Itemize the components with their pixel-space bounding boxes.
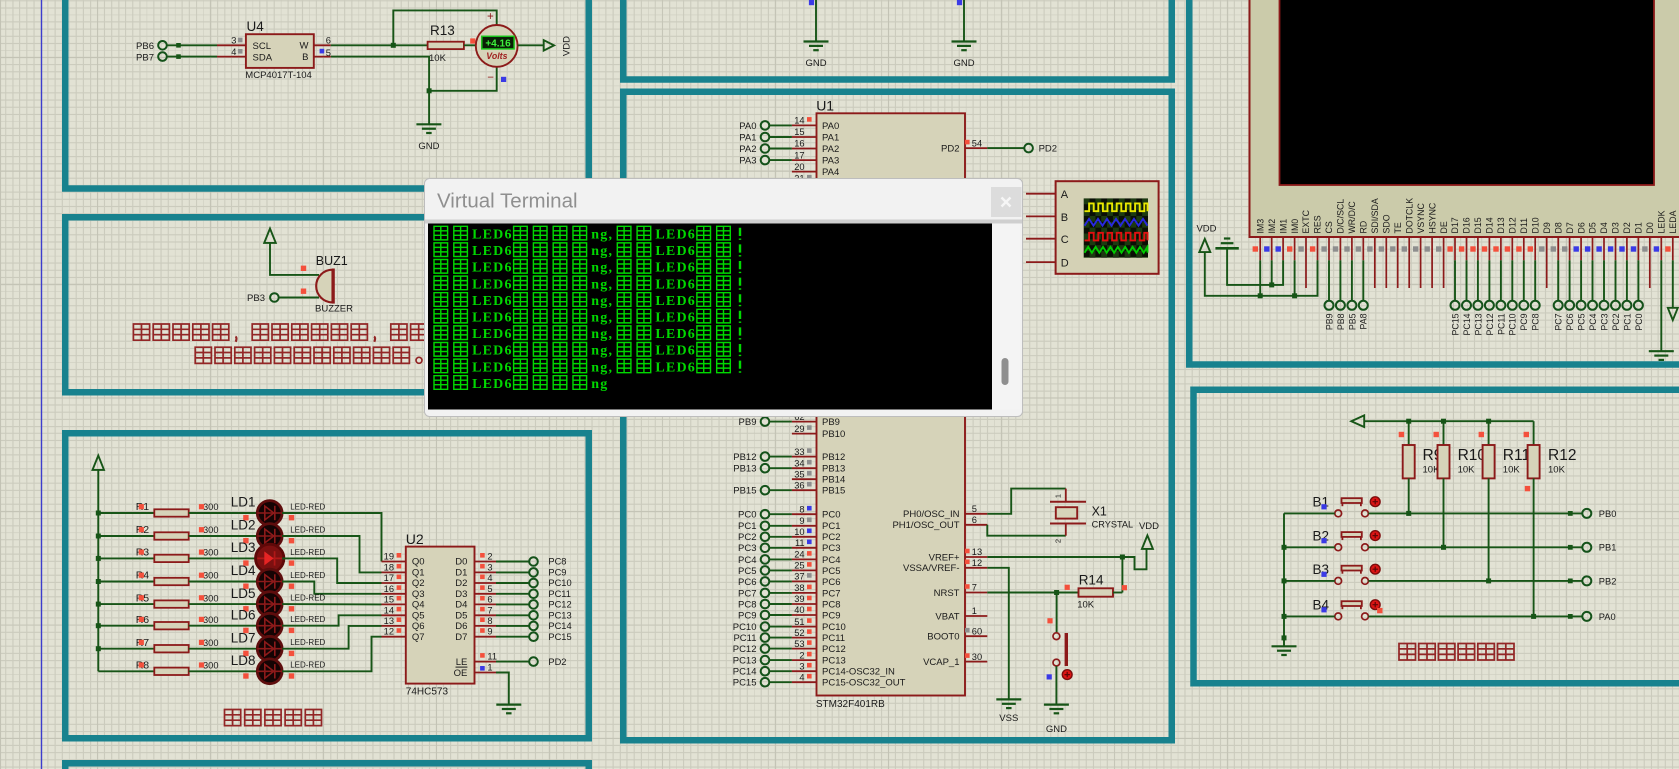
svg-text:TE: TE	[1393, 222, 1403, 233]
frame: key circuit box	[1194, 390, 1679, 684]
svg-text:ng,: ng,	[591, 277, 613, 292]
svg-text:LD7: LD7	[231, 630, 256, 645]
svg-text:PB12: PB12	[822, 452, 845, 463]
svg-text:PC12: PC12	[548, 600, 571, 610]
svg-text:LD8: LD8	[231, 653, 256, 668]
wire bus to B1	[1284, 512, 1335, 514]
svg-text:LED6: LED6	[472, 327, 513, 342]
buzzer BUZ1	[316, 270, 332, 303]
svg-text:PC12: PC12	[822, 644, 846, 655]
wire PB15	[769, 489, 792, 491]
U1 pin 35 (PB14)	[792, 478, 817, 480]
svg-text:PB15: PB15	[733, 486, 756, 497]
svg-text:A: A	[1061, 189, 1069, 201]
svg-text:D15: D15	[1473, 217, 1483, 233]
svg-text:GND: GND	[1046, 724, 1067, 735]
wire PA3	[769, 159, 792, 161]
U2 pin 12 (Q7)	[382, 636, 406, 638]
svg-text:DOTCLK: DOTCLK	[1404, 198, 1414, 234]
svg-text:U1: U1	[816, 98, 834, 114]
wire LD6 to U2 pin	[282, 615, 381, 625]
wire R5 to LD5	[189, 603, 258, 605]
wire B3 to terminal PB2	[1368, 580, 1582, 582]
svg-text:LED6: LED6	[472, 344, 513, 359]
svg-text:D5: D5	[1588, 222, 1598, 233]
svg-text:LED6: LED6	[655, 277, 696, 292]
svg-text:CS: CS	[1324, 221, 1334, 233]
svg-text:D7: D7	[1565, 222, 1575, 233]
svg-text:PC10: PC10	[822, 622, 846, 633]
terminal PC12 (LCD)	[1485, 301, 1494, 310]
terminal PD2	[1024, 144, 1033, 153]
wire PH0 to crystal	[987, 489, 1066, 514]
wire to GND 2	[963, 0, 965, 42]
wire rail to R7	[98, 648, 154, 650]
power arrow LED rail	[93, 456, 105, 470]
MCU U1 STM32F401RB body	[817, 113, 966, 695]
svg-text:PC9: PC9	[822, 610, 840, 621]
U2 pin 14 (Q5)	[382, 614, 406, 616]
VT titlebar bottom strip	[425, 220, 1022, 224]
svg-text:11: 11	[795, 538, 805, 548]
svg-text:D3: D3	[1611, 222, 1621, 233]
svg-text:4: 4	[231, 47, 236, 57]
svg-text:PA1: PA1	[822, 132, 839, 143]
svg-text:LD2: LD2	[231, 518, 256, 533]
wire IM0 down	[1294, 260, 1296, 296]
svg-text:16: 16	[384, 584, 394, 594]
wire R1 to LD1	[189, 512, 258, 514]
svg-text:D3: D3	[455, 589, 467, 600]
wire bus to B4	[1284, 615, 1335, 617]
annotation chinese line 1	[133, 324, 149, 340]
node NRST junction	[1054, 590, 1059, 595]
terminal PB2	[1582, 576, 1591, 585]
caption: independent key circuit (chinese)	[1399, 644, 1416, 661]
terminal PC9	[529, 568, 538, 577]
wire rail to R1	[98, 512, 154, 514]
svg-text:U4: U4	[247, 19, 265, 34]
svg-text:WR/D/C: WR/D/C	[1347, 201, 1357, 234]
wire PC5	[769, 569, 792, 571]
terminal PC15	[529, 632, 538, 641]
U4 pin 4 stub	[217, 56, 246, 58]
svg-text:3: 3	[799, 661, 804, 671]
oscilloscope body	[1056, 181, 1159, 274]
svg-text:14: 14	[794, 116, 804, 126]
svg-text:PC9: PC9	[1519, 313, 1529, 330]
terminal PC2 (LCD)	[1611, 301, 1620, 310]
wire LCD D3 to terminal PC2	[1615, 260, 1617, 301]
svg-text:12: 12	[972, 558, 982, 568]
svg-text:SDO: SDO	[1382, 214, 1392, 233]
wire rail to R4	[98, 581, 154, 583]
svg-text:PC15-OSC32_OUT: PC15-OSC32_OUT	[822, 678, 906, 689]
waveform channel C red	[1085, 233, 1148, 241]
wire LD1 to U2 pin	[282, 513, 381, 562]
ground GND 2	[952, 40, 977, 42]
terminal PC1 (LCD)	[1622, 301, 1631, 310]
svg-text:PC11: PC11	[548, 589, 571, 599]
svg-text:LED6: LED6	[655, 360, 696, 375]
svg-text:LED-RED: LED-RED	[290, 661, 325, 670]
wire PC9	[769, 614, 792, 616]
caption: flowing light circuit (chinese)	[225, 710, 241, 726]
wire LCD D12 to terminal PC10	[1511, 260, 1513, 301]
svg-text:LED6: LED6	[472, 228, 513, 243]
wire PC14	[769, 670, 792, 672]
wire PA0	[769, 124, 792, 126]
terminal PC8 (LCD)	[1531, 301, 1540, 310]
wire LD3 to U2 pin	[282, 558, 381, 583]
terminal PB1	[1582, 543, 1591, 552]
wire B2 to terminal PB1	[1368, 546, 1582, 548]
wire B1 to terminal PB0	[1368, 512, 1582, 514]
svg-text:LED6: LED6	[472, 311, 513, 326]
svg-text:PC3: PC3	[738, 543, 756, 554]
wire PC4	[769, 558, 792, 560]
svg-text:D7: D7	[455, 632, 467, 643]
node W junction	[391, 43, 396, 48]
svg-text:D: D	[1061, 258, 1069, 270]
wire PD2	[987, 147, 1024, 149]
wire R8 to LD8	[189, 670, 258, 672]
svg-text:ng,: ng,	[591, 228, 613, 243]
svg-text:IM3: IM3	[1255, 219, 1265, 234]
U1 pin 15 (PA1)	[792, 136, 817, 138]
U2 pin 15 (Q4)	[382, 603, 406, 605]
svg-text:40: 40	[794, 605, 804, 615]
svg-text:D10: D10	[1530, 217, 1540, 233]
svg-text:Q2: Q2	[412, 578, 425, 589]
U1 pin 4 (PC15-OSC32_OUT)	[792, 681, 817, 683]
LCD screen	[1280, 0, 1655, 185]
svg-text:CRYSTAL: CRYSTAL	[1092, 519, 1134, 529]
svg-text:DE: DE	[1439, 221, 1449, 233]
U2 pin 13 (Q6)	[382, 625, 406, 627]
svg-text:D0: D0	[1645, 222, 1655, 233]
svg-text:ng,: ng,	[591, 261, 613, 276]
LED LD6	[257, 613, 282, 638]
node key row junction	[1406, 511, 1411, 516]
wire PC7	[769, 592, 792, 594]
wire LCD D11 to terminal PC9	[1523, 260, 1525, 301]
svg-text:LED-RED: LED-RED	[290, 638, 325, 647]
svg-text:PC8: PC8	[1531, 313, 1541, 330]
node key bus junction	[1282, 545, 1287, 550]
svg-text:D17: D17	[1450, 217, 1460, 233]
svg-text:HSYNC: HSYNC	[1427, 202, 1437, 233]
svg-text:Volts: Volts	[486, 51, 507, 61]
svg-text:−: −	[487, 72, 494, 84]
frame: bottom-left partial box	[65, 763, 589, 769]
svg-text:15: 15	[384, 594, 394, 604]
wire D4 to PC12	[496, 603, 529, 605]
svg-text:IM2: IM2	[1267, 219, 1277, 234]
wire R13 to voltmeter	[464, 44, 478, 46]
U1 pin 34 (PB13)	[792, 467, 817, 469]
U1 pin 33 (PB12)	[792, 456, 817, 458]
svg-text:D14: D14	[1485, 217, 1495, 233]
LED LD2	[257, 524, 282, 549]
svg-text:PC13: PC13	[548, 611, 571, 621]
svg-text:10K: 10K	[1503, 464, 1521, 475]
resistor R14	[1079, 588, 1114, 596]
svg-text:LED-RED: LED-RED	[290, 525, 325, 534]
svg-text:PC11: PC11	[822, 633, 845, 644]
svg-text:PC1: PC1	[738, 521, 756, 532]
svg-text:PB3: PB3	[247, 293, 265, 304]
svg-text:LED-RED: LED-RED	[290, 615, 325, 624]
svg-text:6: 6	[487, 594, 492, 604]
resistor R8	[154, 668, 188, 675]
wire R9 to key row	[1408, 478, 1410, 513]
svg-text:+4.16: +4.16	[485, 38, 511, 49]
svg-text:LED6: LED6	[472, 294, 513, 309]
ground GND 1	[804, 40, 829, 42]
svg-text:LEDA: LEDA	[1668, 210, 1678, 233]
wire D5 to PC13	[496, 614, 529, 616]
svg-text:8: 8	[799, 504, 804, 514]
svg-text:D1: D1	[1634, 222, 1644, 233]
svg-text:VDD: VDD	[1196, 224, 1216, 235]
VT close button	[991, 187, 1022, 217]
svg-text:54: 54	[972, 138, 982, 148]
svg-text:LED6: LED6	[472, 277, 513, 292]
svg-text:RD: RD	[1359, 221, 1369, 234]
svg-text:OE: OE	[454, 668, 468, 679]
terminal PC13	[529, 611, 538, 620]
wire D0 to PC8	[496, 561, 529, 563]
svg-text:1: 1	[972, 606, 977, 616]
wire PB7 to U4 SDA	[167, 56, 217, 58]
frame: buzzer circuit box	[65, 217, 589, 392]
wire LD5 to U2 pin	[282, 603, 381, 605]
wire LD4 to U2 pin	[282, 582, 381, 594]
svg-text:8: 8	[487, 616, 492, 626]
svg-text:51: 51	[794, 617, 804, 627]
svg-text:LED6: LED6	[655, 311, 696, 326]
wire VSSA to VSS	[987, 568, 1009, 700]
svg-text:LED6: LED6	[655, 244, 696, 259]
svg-text:PD2: PD2	[548, 657, 566, 667]
wire rail to R8	[98, 670, 154, 672]
terminal PC14 (LCD)	[1462, 301, 1471, 310]
terminal PB8 (LCD)	[1336, 301, 1345, 310]
terminal PC0 (LCD)	[1634, 301, 1643, 310]
LED LD3	[256, 544, 284, 572]
wire button to GND	[1055, 666, 1057, 705]
svg-text:5: 5	[972, 504, 977, 514]
svg-text:10: 10	[794, 527, 804, 537]
LCD module body	[1250, 0, 1679, 237]
svg-text:300: 300	[203, 502, 219, 512]
svg-text:D0: D0	[455, 557, 467, 568]
wire R7 to LD7	[189, 648, 258, 650]
resistor R13	[428, 42, 464, 49]
svg-text:PC8: PC8	[738, 599, 756, 610]
U2 pin 16 (Q3)	[382, 593, 406, 595]
svg-text:25: 25	[794, 561, 804, 571]
svg-text:13: 13	[384, 616, 394, 626]
wire LCD D16 to terminal PC14	[1466, 260, 1468, 301]
wire PC0	[769, 513, 792, 515]
svg-text:36: 36	[794, 480, 804, 490]
U4 pin 3 stub	[217, 44, 246, 46]
svg-text:+: +	[487, 11, 494, 23]
wire PA2	[769, 148, 792, 150]
resistor R9	[1408, 421, 1410, 445]
waveform channel D green	[1085, 247, 1148, 253]
svg-text:6: 6	[326, 36, 331, 46]
svg-text:9: 9	[487, 627, 492, 637]
svg-text:24: 24	[794, 550, 804, 560]
svg-text:LED6: LED6	[655, 228, 696, 243]
wire PC11	[769, 637, 792, 639]
resistor R12	[1533, 421, 1535, 445]
wire LD2 to U2 pin	[282, 536, 381, 572]
svg-text:17: 17	[384, 573, 394, 583]
terminal PC15 (LCD)	[1451, 301, 1460, 310]
frame: LED circuit box	[65, 433, 589, 738]
svg-text:PC13: PC13	[822, 656, 846, 667]
wire LE to PD2	[496, 661, 529, 663]
svg-text:PD2: PD2	[1039, 144, 1057, 155]
svg-text:B: B	[1061, 212, 1068, 224]
wire B4 to terminal PA0	[1368, 615, 1582, 617]
svg-text:PA8: PA8	[1359, 313, 1369, 329]
terminal PC7 (LCD)	[1554, 301, 1563, 310]
svg-text:LD3: LD3	[231, 540, 256, 555]
svg-text:D9: D9	[1542, 222, 1552, 233]
svg-text:LD5: LD5	[231, 586, 256, 601]
svg-text:LED6: LED6	[472, 377, 513, 392]
svg-text:D2: D2	[1622, 222, 1632, 233]
svg-text:PC8: PC8	[548, 557, 566, 567]
wire key left bus	[1283, 513, 1285, 646]
svg-text:11: 11	[487, 652, 497, 662]
U1 pin 11 (PC3)	[792, 547, 817, 549]
wire VDD rail LCD	[1205, 252, 1318, 296]
wire R6 to LD6	[189, 625, 258, 627]
U1 pin 39 (PC8)	[792, 603, 817, 605]
LED LD7	[257, 636, 282, 661]
svg-text:PC6: PC6	[822, 577, 840, 588]
svg-text:PC15: PC15	[733, 678, 757, 689]
wire LCD D15 to terminal PC13	[1477, 260, 1479, 301]
svg-text:LED-RED: LED-RED	[290, 548, 325, 557]
svg-text:PC11: PC11	[733, 633, 756, 644]
svg-text:PC2: PC2	[1611, 313, 1621, 330]
svg-text:D13: D13	[1496, 217, 1506, 233]
svg-text:10K: 10K	[429, 53, 447, 64]
svg-text:16: 16	[794, 139, 804, 149]
svg-text:SCL: SCL	[253, 41, 271, 52]
U1 pin 14 (PA0)	[792, 124, 817, 126]
svg-text:PB9: PB9	[1324, 313, 1334, 330]
wire LCD D1 to terminal PC0	[1637, 260, 1639, 301]
terminal PC5 (LCD)	[1577, 301, 1586, 310]
svg-text:PC6: PC6	[738, 577, 756, 588]
svg-text:300: 300	[203, 571, 219, 581]
wire D1 to PC9	[496, 571, 529, 573]
U1 pin 10 (PC2)	[792, 536, 817, 538]
node rail junction	[1486, 419, 1491, 424]
waveform channel B blue	[1085, 219, 1148, 226]
svg-text:PA3: PA3	[739, 156, 756, 167]
svg-text:PC4: PC4	[822, 555, 840, 566]
wire LCD D/C/SCL to terminal PB8	[1339, 260, 1341, 301]
svg-text:PC7: PC7	[822, 588, 840, 599]
wire LCD WR/D/C to terminal PB5	[1351, 260, 1353, 301]
svg-text:PC10: PC10	[548, 578, 571, 588]
svg-text:PC3: PC3	[822, 543, 840, 554]
svg-text:35: 35	[794, 469, 804, 479]
oscilloscope pin B	[1026, 215, 1056, 217]
ground (LCD, inverted bars)	[1224, 237, 1230, 239]
VT scrollbar	[992, 224, 1020, 410]
ground VSS	[996, 698, 1021, 700]
svg-text:D/C/SCL: D/C/SCL	[1336, 199, 1346, 234]
svg-text:LD6: LD6	[231, 607, 256, 622]
svg-text:D6: D6	[455, 621, 467, 632]
wire IM2 down	[1271, 260, 1273, 285]
svg-text:LD4: LD4	[231, 563, 256, 578]
VT console text	[434, 226, 448, 240]
wire PC1	[769, 525, 792, 527]
U1 pin 21 (PA5, partially hidden)	[792, 182, 817, 184]
wire voltmeter to VDD	[518, 44, 544, 46]
svg-text:3: 3	[487, 562, 492, 572]
wire LCD D14 to terminal PC12	[1488, 260, 1490, 301]
svg-text:PD2: PD2	[941, 144, 959, 155]
svg-text:LED6: LED6	[472, 360, 513, 375]
resistor R11	[1488, 421, 1490, 445]
svg-text:PC5: PC5	[738, 566, 756, 577]
svg-text:B: B	[302, 52, 308, 63]
wire PB6 to U4 SCL	[167, 44, 217, 46]
terminal PA0	[1582, 612, 1591, 621]
wire LCD D4 to terminal PC3	[1603, 260, 1605, 301]
terminal PC3 (LCD)	[1600, 301, 1609, 310]
node key bus junction	[1282, 614, 1287, 619]
svg-text:7: 7	[972, 583, 977, 593]
U1 pin 53 (PC12)	[792, 648, 817, 650]
svg-text:PB15: PB15	[822, 486, 845, 497]
svg-text:PC14: PC14	[733, 667, 757, 678]
svg-text:Q6: Q6	[412, 621, 425, 632]
U1 pin 36 (PB15)	[792, 489, 817, 491]
U2 pin 19 (Q0)	[382, 561, 406, 563]
wire NRST to R14	[987, 592, 1078, 594]
svg-text:VDD: VDD	[1139, 521, 1159, 532]
svg-text:D4: D4	[455, 600, 467, 611]
annotation chinese line 2	[195, 347, 211, 363]
terminal PC11 (LCD)	[1496, 301, 1505, 310]
svg-text:PB0: PB0	[1599, 509, 1617, 519]
svg-text:PC10: PC10	[733, 622, 757, 633]
wire LCD D7 to terminal PC6	[1569, 260, 1571, 301]
svg-text:PC0: PC0	[822, 510, 840, 521]
terminal PC11	[529, 590, 538, 599]
svg-text:IM1: IM1	[1278, 219, 1288, 234]
svg-text:PA1: PA1	[739, 132, 756, 143]
wire PC6	[769, 580, 792, 582]
wire PC10	[769, 626, 792, 628]
svg-text:PB8: PB8	[1336, 313, 1346, 330]
crystal X1	[1065, 489, 1067, 502]
svg-text:PB6: PB6	[136, 41, 154, 52]
